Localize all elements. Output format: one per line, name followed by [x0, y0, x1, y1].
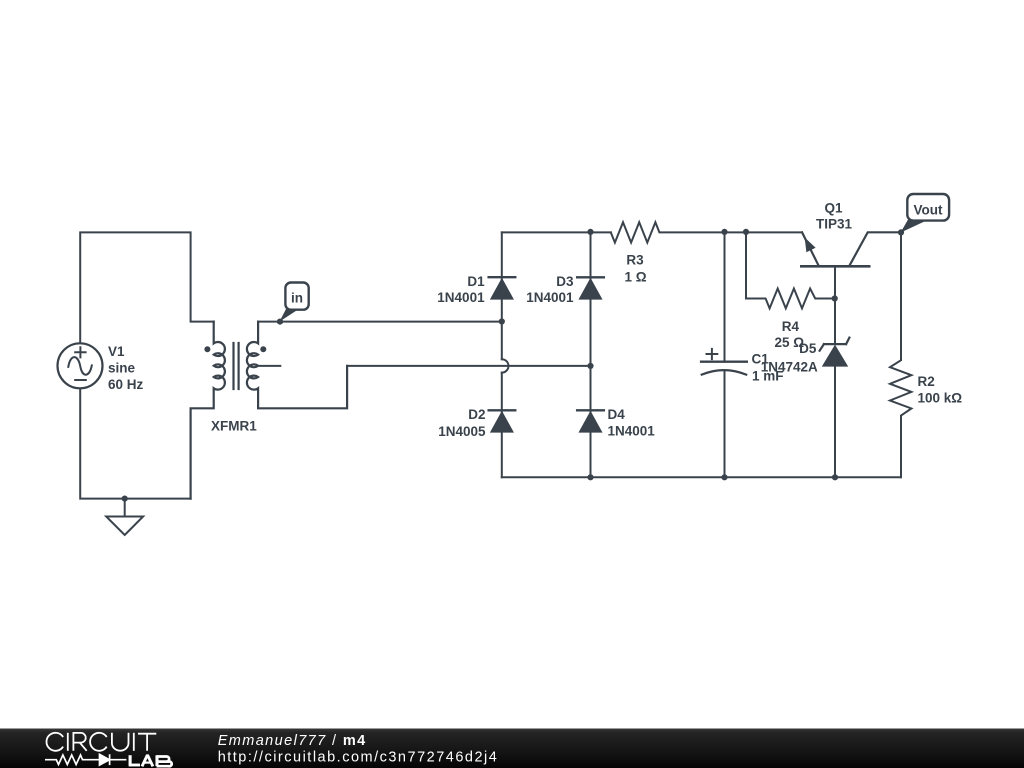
- svg-text:100 kΩ: 100 kΩ: [918, 391, 963, 406]
- logo doodle resistor+diode: [45, 754, 126, 765]
- logo CIRCUIT (drawn letters): [46, 733, 156, 751]
- svg-text:1N4001: 1N4001: [608, 423, 656, 438]
- svg-text:D3: D3: [556, 274, 574, 289]
- logo LAB (drawn letters): [129, 755, 172, 766]
- diode D1: [489, 277, 516, 299]
- svg-text:60 Hz: 60 Hz: [108, 377, 144, 392]
- diode D3: [577, 277, 604, 299]
- node ground junction dot: [122, 496, 128, 502]
- wire bridge middle branch: [590, 232, 592, 477]
- node junction D3-D4 / secondary return: [587, 363, 593, 369]
- wire top rail left (V1 top to transformer): [80, 232, 214, 343]
- svg-text:1N4742A: 1N4742A: [761, 359, 818, 374]
- svg-text:1N4005: 1N4005: [438, 424, 486, 439]
- node junction D1 anode / secondary top: [499, 318, 505, 324]
- wire secondary bottom to bridge middle: [347, 365, 590, 367]
- svg-text:Emmanuel777 / m4: Emmanuel777 / m4: [218, 733, 367, 749]
- resistor R3: [611, 222, 802, 242]
- diode D2: [489, 410, 516, 432]
- node junction bottom rail / C1: [721, 474, 727, 480]
- wire bottom rail: [502, 476, 901, 478]
- svg-text:TIP31: TIP31: [816, 217, 853, 232]
- svg-text:1N4001: 1N4001: [437, 290, 485, 305]
- svg-text:D1: D1: [467, 274, 485, 289]
- node junction top rail / C1: [721, 229, 727, 235]
- footer bar: [0, 729, 1024, 768]
- wire hop: [502, 359, 509, 372]
- phase dots: [204, 346, 210, 352]
- capacitor C1: [701, 232, 747, 477]
- node junction top rail / R4 branch: [743, 229, 749, 235]
- node junction bottom rail / D4 anode: [587, 474, 593, 480]
- svg-text:XFMR1: XFMR1: [211, 418, 257, 433]
- svg-text:1 Ω: 1 Ω: [624, 270, 646, 285]
- svg-text:1N4001: 1N4001: [526, 290, 574, 305]
- diode D4: [577, 410, 604, 432]
- svg-text:Q1: Q1: [824, 201, 843, 216]
- ground: [106, 499, 143, 535]
- svg-text:D5: D5: [799, 341, 817, 356]
- svg-text:sine: sine: [108, 361, 136, 376]
- flag in: [280, 283, 309, 322]
- transistor Q1: [801, 232, 901, 344]
- wire secondary top to bridge: [258, 321, 502, 323]
- svg-text:Vout: Vout: [914, 203, 943, 218]
- svg-text:D4: D4: [608, 407, 626, 422]
- svg-text:R4: R4: [782, 319, 800, 334]
- core lines: [234, 343, 239, 389]
- node junction bottom rail / D5: [832, 474, 838, 480]
- transformer XFMR1: [191, 322, 348, 499]
- resistor R4: [746, 232, 835, 309]
- node Vout dot: [898, 229, 904, 235]
- svg-text:V1: V1: [108, 344, 125, 359]
- voltage source V1: [58, 343, 103, 388]
- flag Vout: [901, 194, 950, 233]
- node in junction dot: [277, 319, 283, 325]
- zener diode D5: [820, 338, 850, 478]
- svg-text:R2: R2: [918, 374, 935, 389]
- node junction R4 / Q1 base / D5: [832, 295, 838, 301]
- primary lead + winding: [191, 322, 225, 499]
- svg-text:R3: R3: [626, 252, 644, 267]
- resistor R2: [890, 232, 911, 477]
- svg-text:D2: D2: [468, 407, 485, 422]
- secondary winding: [247, 322, 347, 409]
- wire top rail bridge to R3: [502, 231, 611, 233]
- svg-text:in: in: [291, 291, 303, 306]
- center tap stub: [258, 365, 280, 367]
- node junction top rail / D3 cathode: [587, 229, 593, 235]
- wire bridge left branch: [501, 232, 503, 477]
- wire V1 bottom: [80, 388, 190, 498]
- svg-text:http://circuitlab.com/c3n77274: http://circuitlab.com/c3n772746d2j4: [218, 749, 499, 765]
